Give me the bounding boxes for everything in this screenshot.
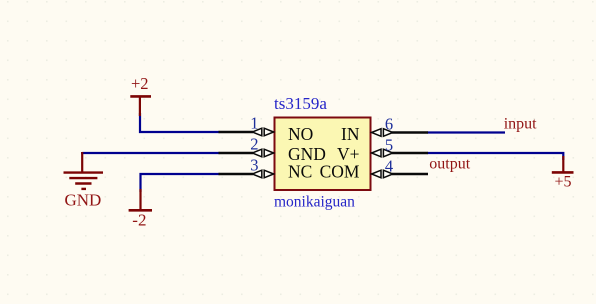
svg-text:3: 3 xyxy=(250,156,258,175)
svg-text:input: input xyxy=(504,116,537,133)
svg-text:+5: +5 xyxy=(555,173,572,190)
svg-text:ts3159a: ts3159a xyxy=(274,94,327,113)
svg-text:output: output xyxy=(429,156,470,173)
svg-text:monikaiguan: monikaiguan xyxy=(274,193,355,210)
svg-text:GND: GND xyxy=(65,190,102,209)
svg-text:COM: COM xyxy=(320,162,360,182)
svg-text:6: 6 xyxy=(385,115,393,134)
svg-text:1: 1 xyxy=(250,114,258,133)
svg-text:+2: +2 xyxy=(131,74,149,93)
svg-text:5: 5 xyxy=(385,136,393,155)
svg-text:2: 2 xyxy=(250,135,258,154)
svg-text:NC: NC xyxy=(288,162,312,182)
svg-text:4: 4 xyxy=(385,157,393,176)
svg-text:NO: NO xyxy=(288,124,313,144)
svg-text:IN: IN xyxy=(341,124,360,144)
svg-text:-2: -2 xyxy=(132,211,146,230)
